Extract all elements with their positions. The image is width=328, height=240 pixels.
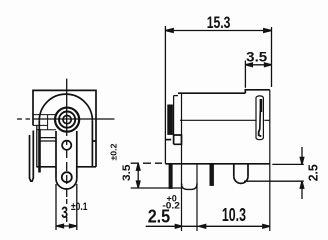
dim bottom 2.5 leader — [146, 225, 183, 229]
dim 3 extension lines — [56, 184, 77, 230]
small hole upper — [62, 141, 71, 150]
svg-text:15.3: 15.3 — [207, 13, 231, 32]
dim bottom line between — [182, 225, 198, 227]
svg-text:3: 3 — [61, 203, 68, 222]
side view bottom edge — [165, 163, 269, 165]
small hole lower — [62, 172, 72, 182]
barrel inner circle — [63, 116, 71, 124]
side view front plate dark — [168, 96, 178, 135]
side view inner wall — [181, 93, 183, 164]
left lock tab — [30, 125, 40, 181]
dim 3.5 top extension left — [244, 61, 246, 88]
side view rear block — [245, 90, 269, 93]
dim 10.3 line — [199, 225, 270, 229]
vertical centerline — [66, 79, 68, 222]
svg-text:±0.2: ±0.2 — [109, 143, 119, 160]
middle pin dark — [210, 164, 214, 186]
side view front foot — [165, 139, 171, 141]
side view mid line — [180, 119, 270, 121]
svg-text:10.3: 10.3 — [222, 205, 246, 225]
svg-text:2.5: 2.5 — [306, 164, 321, 181]
dim 3 arrow line — [57, 224, 77, 228]
dim 3.5 top line — [245, 63, 271, 67]
dim 3.5 left extension lines — [131, 163, 181, 188]
dim 15.3 extension left — [164, 26, 166, 164]
front view dome arc — [39, 94, 92, 121]
front view body outline — [33, 90, 96, 166]
svg-text:±0.1: ±0.1 — [71, 201, 87, 213]
svg-text:2.5: 2.5 — [148, 207, 171, 227]
dim 3.5 left arrow line — [136, 163, 140, 188]
barrel middle circle — [59, 112, 75, 128]
front pin leg dark — [169, 164, 172, 189]
rear block right edge and extension — [269, 90, 271, 231]
side view contact pin in slot — [260, 99, 263, 112]
dim 2.5 right extension lines — [244, 164, 304, 181]
svg-text:3.5: 3.5 — [121, 165, 133, 182]
dim 15.3 extension right — [271, 27, 273, 87]
side view notch box — [174, 135, 182, 144]
barrel outer circle — [55, 108, 79, 132]
dim 15.3 line — [165, 29, 271, 33]
U leg rear — [234, 164, 248, 184]
center channel — [56, 131, 77, 189]
svg-text:3.5: 3.5 — [246, 49, 267, 65]
side view top edge — [178, 92, 245, 94]
dim 2.5 right arrow line — [300, 147, 304, 199]
U leg front — [182, 164, 198, 231]
horizontal centerline — [17, 118, 115, 120]
side view rear slot — [256, 96, 263, 140]
